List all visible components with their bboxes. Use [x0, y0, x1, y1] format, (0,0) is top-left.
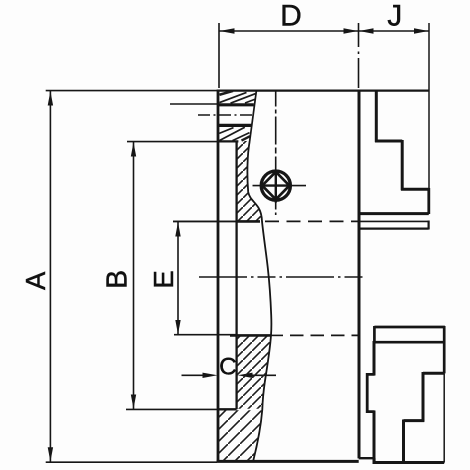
back plate right edge	[235, 141, 237, 409]
bottom jaw tongue left edge	[373, 326, 376, 343]
svg-text:C: C	[219, 354, 237, 381]
slot hidden line top	[173, 220, 359, 222]
bottom jaw step line 1	[423, 372, 444, 375]
svg-text:B: B	[101, 270, 133, 289]
bottom jaw right edge thick	[443, 326, 446, 373]
flange thick line 1	[219, 103, 254, 106]
body front face	[358, 90, 361, 459]
top jaw tongue right closure	[428, 221, 430, 230]
main centerline	[199, 276, 365, 278]
dimension D	[219, 23, 359, 88]
bottom jaw step 2	[402, 420, 405, 463]
back plate bottom closure	[218, 408, 237, 410]
dimension E	[173, 221, 237, 334]
flange outer slant edge	[250, 91, 257, 141]
slot notch right edge	[373, 458, 375, 462]
svg-text:D: D	[280, 0, 302, 33]
recess edge line left	[170, 103, 219, 105]
body bottom edge	[217, 460, 359, 463]
top jaw tongue lower line	[359, 228, 429, 230]
chuck key socket vertical centerline	[275, 92, 277, 216]
slot hidden line bottom	[230, 334, 359, 337]
bottom jaw left edge lower	[373, 411, 376, 463]
slot notch bottom line	[359, 457, 375, 459]
bottom jaw tongue top	[374, 326, 445, 329]
back plate left edge	[217, 90, 220, 463]
top jaw step line 2	[401, 188, 429, 191]
chuck key socket circle	[261, 171, 290, 200]
chuck key socket diamond	[262, 172, 289, 200]
bottom jaw right edge thin	[443, 373, 445, 462]
bottom jaw step line 2	[404, 419, 425, 422]
top jaw step 1	[375, 91, 378, 143]
dimension C	[182, 373, 277, 378]
svg-text:E: E	[148, 270, 179, 288]
top jaw right edge	[427, 188, 430, 214]
dimension B	[126, 142, 218, 410]
bottom jaw tongue bottom	[374, 341, 445, 344]
section wavy edge	[247, 141, 271, 461]
top jaw bottom	[359, 212, 429, 215]
hatch mid-lower column	[237, 336, 271, 409]
top jaw step line 1	[375, 140, 402, 143]
dimension J	[359, 23, 430, 189]
body top edge	[218, 89, 429, 91]
hatch bottom block	[218, 410, 262, 460]
bottom jaw left edge jog	[367, 374, 374, 411]
chuck key socket horizontal centerline	[253, 185, 307, 187]
svg-text:A: A	[20, 271, 51, 290]
dimension A	[46, 91, 218, 463]
flange bottom line	[218, 140, 238, 142]
bottom jaw left edge upper	[373, 341, 376, 376]
flange thick line 2	[219, 124, 253, 127]
bottom jaw bottom	[373, 461, 445, 464]
top jaw step 2	[401, 140, 404, 190]
flange hatch band upper	[220, 91, 256, 103]
bottom jaw step 1	[422, 372, 425, 422]
hatch upper column	[237, 141, 262, 221]
chuck key socket cross	[263, 184, 290, 186]
svg-text:J: J	[387, 0, 402, 32]
mounting hole centerline	[198, 114, 255, 116]
flange hatch band lower	[219, 127, 250, 140]
top jaw tongue mid line	[359, 220, 429, 222]
